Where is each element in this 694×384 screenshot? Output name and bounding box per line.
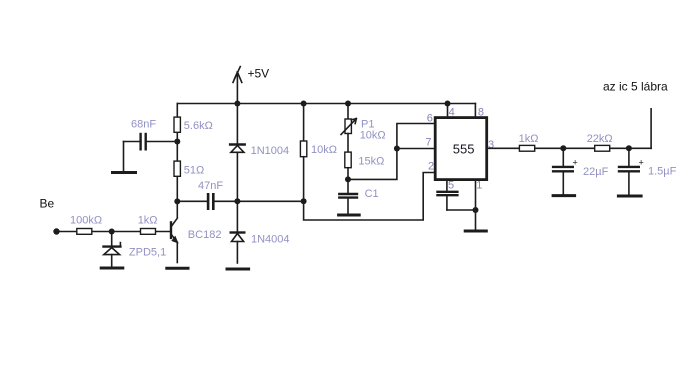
svg-text:2: 2 — [428, 160, 434, 172]
svg-text:10kΩ: 10kΩ — [360, 130, 386, 142]
ground for 1.5uF — [618, 195, 641, 198]
resistor 100k — [77, 229, 92, 235]
wire top +5V rail — [177, 103, 475, 105]
wire output up stub — [650, 109, 652, 149]
svg-text:1N1004: 1N1004 — [251, 145, 290, 157]
node rail junction P1 — [345, 101, 351, 107]
capacitor 22uF — [553, 148, 573, 194]
svg-text:+: + — [573, 158, 578, 168]
wire input row — [57, 231, 172, 233]
node zener junction — [109, 229, 115, 235]
svg-text:15kΩ: 15kΩ — [358, 156, 384, 168]
svg-text:+: + — [639, 158, 644, 168]
resistor 22k — [595, 145, 610, 151]
svg-text:6: 6 — [427, 113, 433, 125]
capacitor pin5 decoupling — [438, 180, 476, 210]
wire pin8 stub — [474, 104, 476, 118]
resistor 5.6k — [174, 117, 180, 132]
resistor 1k base — [141, 229, 156, 235]
svg-text:Be: Be — [40, 197, 55, 211]
node 47nF/diodes junction — [234, 198, 240, 204]
node junction 68nF/5.6k/51R — [174, 139, 180, 145]
svg-text:1kΩ: 1kΩ — [138, 215, 158, 227]
ground for 68nF — [113, 171, 136, 174]
wire timing node to pins 6/7 — [348, 124, 435, 180]
svg-text:4: 4 — [449, 107, 455, 119]
svg-text:7: 7 — [425, 136, 431, 148]
diode 1N4004 — [231, 201, 245, 263]
resistor 1k output — [519, 145, 534, 151]
wire pin1 to ground — [475, 180, 477, 230]
node rail junction diode column — [234, 101, 240, 107]
op-amp U1 555 timer box — [435, 118, 487, 180]
svg-text:555: 555 — [453, 142, 475, 157]
wire pin2 routing — [304, 173, 436, 221]
wire pin3 output row — [487, 147, 651, 149]
svg-text:C1: C1 — [365, 188, 379, 200]
svg-text:8: 8 — [478, 107, 484, 119]
diode 1N1004 — [230, 104, 245, 202]
node pin7 junction — [394, 146, 400, 152]
svg-text:+5V: +5V — [248, 67, 270, 81]
ground for 22uF — [553, 194, 575, 197]
svg-text:51Ω: 51Ω — [184, 165, 204, 177]
ground for 1N4004 — [227, 268, 249, 271]
ground for zener — [101, 267, 123, 270]
svg-text:47nF: 47nF — [198, 180, 223, 192]
svg-text:100kΩ: 100kΩ — [70, 215, 102, 227]
node pin1 junction — [473, 207, 479, 213]
node timing junction — [345, 176, 351, 182]
capacitor 47nF — [208, 194, 213, 208]
resistor 15k — [345, 134, 351, 180]
wire collector row y=201.3 — [177, 200, 303, 202]
wire pin4 stub — [447, 104, 449, 118]
svg-text:1kΩ: 1kΩ — [519, 133, 539, 145]
node 1.5uF junction — [626, 145, 632, 151]
node pin4 rail junction — [445, 101, 451, 107]
node input terminal — [53, 228, 59, 234]
svg-text:1: 1 — [476, 180, 482, 192]
node collector junction — [174, 198, 180, 204]
svg-text:5.6kΩ: 5.6kΩ — [184, 120, 213, 132]
+5V supply arrow — [233, 67, 242, 104]
svg-text:1.5µF: 1.5µF — [648, 166, 677, 178]
ground for pin1 — [465, 230, 486, 233]
svg-text:22kΩ: 22kΩ — [587, 133, 613, 145]
transistor Q1 BC182 — [171, 218, 179, 262]
svg-text:68nF: 68nF — [131, 119, 156, 131]
ground for BC182 emitter — [167, 267, 188, 270]
svg-text:az ic 5 lábra: az ic 5 lábra — [603, 80, 668, 94]
capacitor C1 — [339, 179, 357, 213]
node rail junction 10k — [301, 101, 307, 107]
resistor 10k shunt — [300, 104, 306, 202]
svg-text:1N4004: 1N4004 — [251, 234, 290, 246]
wire left column (x=177.3) — [176, 104, 178, 218]
node 22uF junction — [560, 145, 566, 151]
svg-text:10kΩ: 10kΩ — [311, 144, 337, 156]
node pin2 junction — [301, 198, 307, 204]
ground for C1 — [339, 214, 360, 217]
svg-text:BC182: BC182 — [188, 229, 222, 241]
capacitor 68nF — [124, 134, 178, 171]
svg-text:22µF: 22µF — [583, 166, 609, 178]
svg-text:ZPD5,1: ZPD5,1 — [129, 247, 166, 259]
zener diode ZPD5,1 — [104, 232, 121, 267]
svg-text:5: 5 — [448, 180, 454, 192]
capacitor 1.5uF — [619, 148, 639, 194]
resistor 51R — [174, 161, 180, 176]
potentiometer P1 — [341, 104, 356, 135]
